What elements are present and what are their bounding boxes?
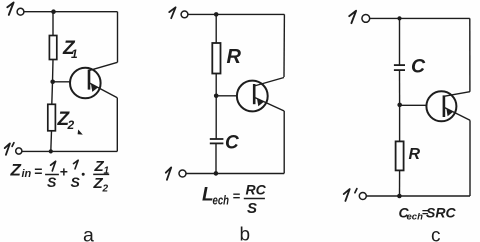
formula Zin (a): [10, 161, 43, 181]
svg-text:1: 1: [71, 47, 78, 61]
transistor Q3 emitter arrow (c): [446, 109, 453, 117]
wire base lead (a): [53, 81, 71, 83]
node 1 top label (c): [349, 11, 356, 23]
capacitor C (b) bottom plate: [210, 142, 224, 144]
svg-text:S: S: [47, 174, 57, 190]
node 1' label (a): [5, 143, 10, 154]
wire from top junction to Z1 (a): [52, 12, 54, 36]
terminal 1' circle (c): [359, 193, 366, 200]
svg-text:+: +: [60, 164, 68, 180]
junction dot top (a): [51, 9, 56, 14]
svg-text:=: =: [233, 189, 241, 204]
wire from capacitor to base junction (c): [399, 70, 401, 105]
wire base lead (c): [400, 104, 427, 106]
transistor Q1 emitter line (a): [89, 83, 117, 98]
wire from capacitor to bottom (b): [215, 143, 217, 173]
terminal 1' circle (a): [16, 148, 22, 154]
capacitor C (b) top plate: [210, 138, 224, 140]
transistor Q1 collector line (a): [89, 62, 118, 70]
wire from R to bottom (c): [399, 170, 401, 196]
resistor Z2: [48, 104, 56, 131]
svg-text:Z: Z: [10, 161, 22, 180]
stray arrow mark (a): [78, 130, 83, 135]
junction dot bottom (a): [49, 149, 53, 153]
svg-text:C: C: [411, 56, 426, 78]
terminal 1 top circle (c): [362, 15, 370, 23]
svg-text:2: 2: [67, 118, 75, 132]
resistor R (c): [396, 141, 404, 170]
wire top horizontal (c): [370, 17, 470, 19]
fraction bar Z1/Z2 (a): [93, 173, 109, 175]
wire bottom horizontal (c): [366, 195, 470, 197]
node 1' label (c): [344, 189, 350, 201]
terminal 1 circle (a): [17, 8, 24, 15]
junction dot bottom (b): [214, 171, 219, 176]
wire right rail upper (a): [117, 12, 119, 63]
svg-text:ech: ech: [213, 193, 230, 208]
junction dot top (c): [397, 16, 401, 20]
terminal 1 bottom circle (b): [179, 170, 186, 177]
transistor Q2 emitter arrow (b): [257, 99, 264, 107]
svg-text:ech: ech: [407, 212, 424, 223]
svg-text:S: S: [247, 200, 257, 217]
transistor Q1 circle (a): [70, 68, 101, 99]
wire from base junction to Z2 (a): [51, 82, 54, 105]
svg-text:2: 2: [102, 184, 109, 195]
junction dot bottom (c): [397, 194, 402, 199]
wire bottom horizontal (a): [22, 150, 117, 152]
junction dot base (c): [397, 103, 402, 108]
svg-text:c: c: [431, 226, 441, 242]
junction dot top (b): [214, 12, 219, 17]
capacitor C (c) bottom plate: [394, 69, 405, 71]
wire from R to base junction (b): [215, 74, 217, 96]
wire right rail lower (b): [283, 111, 285, 173]
svg-text:b: b: [240, 225, 251, 242]
transistor Q3 base bar (c): [443, 95, 446, 117]
transistor Q3 circle (c): [426, 91, 456, 121]
transistor Q1 base bar (a): [88, 70, 91, 90]
wire from top junction to capacitor (c): [399, 18, 401, 65]
wire from base junction to capacitor (b): [215, 96, 217, 139]
svg-text:=: =: [34, 163, 42, 179]
wire right rail lower (a): [116, 98, 118, 152]
svg-text:in: in: [22, 168, 32, 180]
wire right rail upper (b): [283, 14, 285, 77]
svg-text:C: C: [225, 133, 239, 154]
transistor Q3 emitter line (c): [444, 107, 470, 120]
junction dot base (b): [214, 94, 219, 99]
wire right rail upper (c): [469, 18, 471, 91]
fraction bar 1/S (a): [45, 174, 59, 176]
transistor Q2 base bar (b): [253, 84, 256, 104]
wire from Z1 to base junction (a): [52, 60, 55, 82]
transistor Q2 emitter line (b): [254, 97, 284, 111]
resistor R (b): [212, 43, 220, 74]
svg-text:S: S: [71, 174, 81, 190]
svg-text:SRC: SRC: [426, 205, 456, 221]
wire bottom horizontal (b): [186, 173, 284, 175]
wire top horizontal (a): [24, 11, 118, 13]
transistor Q3 collector line (c): [444, 92, 470, 97]
svg-text:a: a: [83, 225, 94, 242]
transistor Q2 circle (b): [237, 81, 268, 112]
transistor Q1 emitter arrow (a): [91, 84, 98, 92]
capacitor C (c) top plate: [394, 64, 405, 66]
resistor Z1: [49, 36, 56, 60]
formula Lech (b): [202, 182, 267, 218]
svg-text:RC: RC: [246, 182, 267, 198]
fraction bar RC/S (b): [244, 198, 265, 200]
wire from top junction to R (b): [215, 14, 217, 43]
node 1 bottom label (b): [166, 167, 171, 179]
svg-text:R: R: [409, 146, 421, 163]
wire from Z2 to bottom (a): [50, 131, 53, 152]
formula Cech (c): [399, 205, 457, 223]
wire from base junction to R (c): [399, 105, 401, 141]
terminal 1 top circle (b): [181, 11, 188, 18]
svg-text:R: R: [227, 46, 242, 68]
wire top horizontal (b): [188, 13, 284, 15]
transistor Q2 collector line (b): [254, 78, 284, 87]
wire base lead (b): [216, 95, 237, 97]
junction dot base (a): [50, 80, 55, 85]
node 1 top label (b): [169, 7, 175, 18]
node 1 label (a): [7, 3, 13, 15]
wire right rail lower (c): [469, 120, 471, 196]
